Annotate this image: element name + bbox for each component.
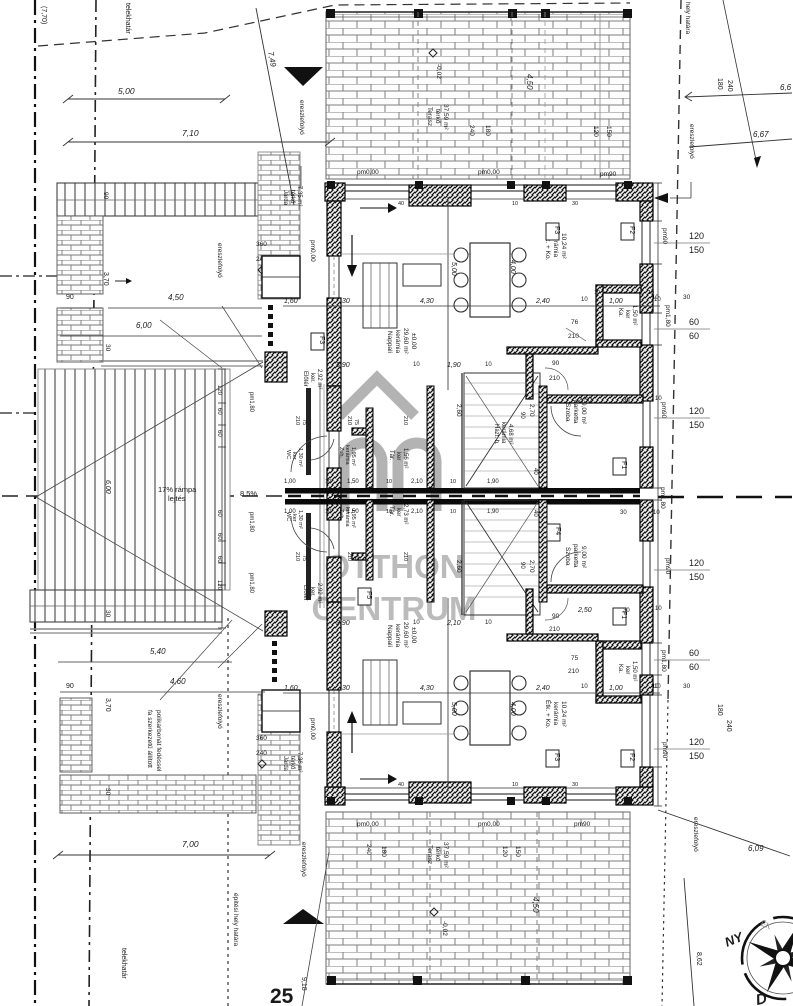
svg-text:Zuh.: Zuh. (338, 509, 344, 520)
svg-text:120: 120 (501, 846, 508, 857)
garage brick wall lower 2 (60, 776, 92, 813)
boundary dotted bottom left (227, 618, 229, 1006)
ramp striped paving (38, 369, 230, 590)
house bottom wall window lines (341, 793, 616, 795)
survey diamond (429, 49, 437, 57)
svg-text:2,10: 2,10 (411, 509, 423, 515)
svg-text:2,40: 2,40 (535, 298, 550, 305)
corner wall bottom-left (325, 787, 345, 805)
svg-text:150: 150 (689, 572, 704, 582)
right dim tick (654, 766, 662, 768)
svg-text:F3: F3 (553, 226, 560, 234)
right wall window l2 (642, 541, 644, 587)
svg-text:10: 10 (653, 510, 660, 516)
ka bay wall left b (596, 641, 603, 703)
svg-text:pm0,00: pm0,00 (357, 169, 379, 176)
terrace post b (521, 976, 530, 985)
svg-text:ereszlefolyó: ereszlefolyó (688, 124, 695, 159)
dim 6,67 (689, 139, 792, 147)
svg-text:telekhatár: telekhatár (120, 948, 127, 979)
right dim tick (654, 312, 662, 314)
svg-text:6,6: 6,6 (780, 83, 792, 92)
chairs lower (454, 676, 468, 690)
svg-text:210: 210 (346, 552, 352, 561)
right wall seg5 (640, 675, 653, 695)
svg-text:120: 120 (689, 231, 704, 241)
garage brick band bottom (60, 775, 256, 813)
svg-text:6,00: 6,00 (136, 321, 152, 330)
svg-text:kerámia: kerámia (344, 445, 350, 466)
svg-text:ker: ker (624, 666, 630, 674)
svg-text:40: 40 (532, 468, 538, 475)
svg-text:fa szerkezetű állított: fa szerkezetű állított (146, 710, 153, 768)
svg-text:(7,70): (7,70) (40, 6, 47, 24)
svg-text:120: 120 (689, 406, 704, 416)
svg-text:37,59 m²: 37,59 m² (442, 104, 449, 130)
kitchen island upper (403, 264, 441, 286)
dim tick (218, 446, 226, 448)
svg-text:WC: WC (285, 450, 291, 459)
leader lines left bottom (160, 620, 232, 700)
svg-text:Tár.: Tár. (388, 450, 394, 461)
svg-text:360: 360 (256, 735, 267, 742)
svg-text:75: 75 (353, 555, 359, 561)
wall post top (415, 181, 423, 189)
svg-text:90: 90 (552, 360, 560, 367)
terrace divider dashed b (429, 812, 431, 984)
dim chain line left of walkway (221, 369, 223, 628)
wall post top (542, 181, 550, 189)
right wall seg1 (640, 201, 653, 221)
window spec diamond (258, 266, 266, 274)
svg-text:1,90: 1,90 (487, 509, 499, 515)
svg-text:5,00: 5,00 (450, 262, 457, 276)
box F2 (621, 750, 634, 767)
svg-text:ker.: ker. (309, 373, 315, 383)
svg-text:4,50: 4,50 (525, 74, 534, 90)
svg-text:120: 120 (592, 126, 599, 137)
kitchen counter lower (363, 660, 397, 725)
svg-text:10: 10 (450, 509, 456, 515)
svg-text:pm1,80: pm1,80 (248, 512, 254, 533)
garage brick wall lower (60, 698, 92, 772)
svg-text:1,90: 1,90 (487, 479, 499, 485)
left wall upper (327, 201, 341, 256)
svg-text:4,50: 4,50 (168, 293, 184, 302)
etk wall upper (507, 347, 598, 354)
svg-text:30: 30 (104, 344, 111, 352)
dim tick (218, 368, 226, 370)
svg-text:10: 10 (581, 297, 588, 303)
svg-text:60: 60 (689, 331, 699, 341)
svg-text:10,24 m²: 10,24 m² (560, 233, 567, 259)
garage brick wall upper 2 (57, 308, 103, 362)
svg-text:Járda: Járda (282, 756, 288, 772)
svg-text:75: 75 (353, 419, 359, 425)
svg-text:10: 10 (386, 479, 392, 485)
trellis band top (57, 183, 263, 216)
stair diagonal upper (466, 376, 538, 486)
right wall seg3 (640, 345, 653, 401)
svg-text:30: 30 (104, 610, 111, 618)
wc door arc upper (311, 439, 334, 460)
svg-text:210: 210 (294, 416, 300, 425)
cabinet line upper (447, 197, 449, 390)
svg-text:37,59 m²: 37,59 m² (442, 842, 449, 868)
right dim tick (654, 674, 662, 676)
right dim tick (654, 499, 662, 501)
svg-text:F4: F4 (554, 527, 561, 535)
svg-text:60: 60 (689, 648, 699, 658)
svg-text:ker: ker (291, 452, 297, 460)
svg-text:1,60: 1,60 (284, 298, 298, 305)
dim tick (218, 584, 226, 586)
svg-text:Szoba: Szoba (564, 547, 571, 566)
stair enclosure lower (464, 500, 540, 615)
left window rect (262, 256, 300, 298)
right dim tick (654, 344, 662, 346)
svg-text:10: 10 (512, 201, 518, 207)
svg-text:30: 30 (683, 683, 691, 690)
svg-text:építési hely határa: építési hely határa (232, 893, 239, 947)
svg-text:pm0,00: pm0,00 (357, 821, 379, 828)
szoba wall upper (547, 395, 643, 403)
cabinet line lower (447, 598, 449, 791)
svg-text:180: 180 (716, 78, 723, 90)
compass rose (723, 917, 793, 1006)
svg-text:75: 75 (301, 419, 307, 425)
svg-text:kerámia: kerámia (394, 624, 401, 648)
chairs upper (454, 248, 468, 262)
zuh wall upper h (352, 428, 373, 435)
svg-text:4,50: 4,50 (531, 897, 540, 913)
wall pier bottom 2 (524, 787, 566, 803)
svg-text:1,50 m²: 1,50 m² (631, 661, 637, 681)
corner wall top-right (616, 183, 653, 201)
tar wall lower (427, 500, 434, 602)
svg-text:75: 75 (571, 655, 579, 662)
left wall at spine (327, 468, 341, 520)
svg-text:7,00: 7,00 (182, 839, 199, 849)
terrace post (541, 9, 550, 18)
svg-text:4,68 m²: 4,68 m² (507, 424, 513, 444)
ka bay wall top b (596, 641, 641, 649)
eresz leader 4 (690, 182, 692, 198)
box F2 (621, 223, 634, 240)
svg-text:60: 60 (689, 317, 699, 327)
svg-text:210: 210 (346, 416, 352, 425)
entry railing dots top (268, 305, 273, 310)
left wall entry up (327, 386, 341, 431)
svg-text:10: 10 (450, 479, 456, 485)
svg-text:90: 90 (519, 562, 525, 569)
wall post bottom (624, 797, 632, 805)
svg-text:Terasz: Terasz (426, 107, 433, 126)
svg-text:3,70: 3,70 (104, 698, 111, 712)
svg-text:10: 10 (325, 479, 331, 485)
svg-text:6,00: 6,00 (104, 480, 111, 494)
house top wall window lines (341, 184, 616, 186)
leader line bottom (302, 852, 329, 1006)
svg-text:10: 10 (512, 782, 518, 788)
svg-text:25: 25 (270, 985, 294, 1006)
svg-text:60: 60 (216, 430, 222, 437)
left wall entry low (327, 557, 341, 602)
svg-text:10: 10 (413, 362, 420, 368)
right dim tick (654, 487, 662, 489)
terrace bottom edge (326, 983, 630, 985)
svg-text:7,35 m²: 7,35 m² (296, 186, 302, 206)
svg-text:29,60 m²: 29,60 m² (402, 622, 409, 648)
left window rect b (262, 690, 300, 732)
svg-text:10: 10 (485, 362, 492, 368)
property boundary line left 2 (89, 0, 96, 1006)
svg-text:76: 76 (571, 319, 579, 326)
svg-text:2,60: 2,60 (455, 560, 462, 573)
axis dash-dot mid left (0, 412, 136, 414)
dim row line lower (283, 692, 660, 694)
wall post top (507, 181, 515, 189)
svg-text:5,00: 5,00 (450, 702, 457, 716)
terrace post (508, 9, 517, 18)
svg-text:240: 240 (468, 125, 475, 136)
svg-text:40: 40 (532, 510, 538, 517)
svg-text:10: 10 (594, 290, 600, 296)
etk wall lower (507, 634, 598, 641)
svg-text:hely határa: hely határa (684, 2, 691, 35)
svg-text:210: 210 (568, 333, 579, 340)
svg-text:Járda: Járda (282, 190, 288, 206)
svg-text:pm0,00: pm0,00 (478, 821, 500, 828)
svg-text:10: 10 (386, 509, 392, 515)
svg-text:9,00 m²: 9,00 m² (580, 402, 587, 425)
svg-text:5,40: 5,40 (150, 647, 166, 656)
stair wall left upper (461, 373, 463, 488)
svg-text:±0,00: ±0,00 (410, 627, 417, 644)
zuh wall upper v (366, 408, 373, 488)
svg-text:Zuh.: Zuh. (338, 447, 344, 458)
entry wall block top (265, 352, 287, 382)
svg-text:2,92 m²: 2,92 m² (316, 583, 322, 603)
party wall dashes (288, 495, 640, 497)
wc wall lower (306, 513, 311, 600)
terrace divider dashed (417, 12, 419, 179)
svg-text:4,60: 4,60 (170, 677, 186, 686)
svg-text:40: 40 (398, 782, 404, 788)
svg-text:Előtér: Előtér (302, 585, 308, 601)
svg-text:210: 210 (568, 668, 579, 675)
entry railing dots bottom (272, 641, 277, 646)
svg-text:2,73 m²: 2,73 m² (402, 504, 408, 524)
ceiling line upper (341, 253, 520, 255)
svg-text:2,70: 2,70 (528, 404, 535, 417)
svg-text:2,92 m²: 2,92 m² (316, 369, 322, 389)
svg-text:pm1,80: pm1,80 (248, 392, 254, 413)
svg-text:-0,02: -0,02 (435, 64, 442, 79)
entry door arc lower (291, 516, 327, 552)
svg-text:10: 10 (485, 620, 492, 626)
etk wall v upper (526, 354, 533, 399)
svg-text:4,30: 4,30 (420, 298, 434, 305)
svg-text:Étk. + Ko.: Étk. + Ko. (544, 700, 553, 729)
svg-text:30: 30 (342, 298, 350, 305)
terrace post (414, 9, 423, 18)
svg-text:Házt. h.: Házt. h. (493, 424, 499, 445)
left wall lower (327, 732, 341, 787)
svg-text:3,90: 3,90 (336, 620, 350, 627)
porch face lines (319, 384, 321, 608)
kitchen island lower (403, 702, 441, 724)
terrace post (326, 9, 335, 18)
svg-text:térkő: térkő (289, 756, 295, 770)
szoba door arc upper (551, 406, 581, 436)
svg-text:29,60 m²: 29,60 m² (402, 328, 409, 354)
svg-text:240: 240 (256, 750, 267, 757)
svg-text:8,62: 8,62 (695, 952, 702, 966)
svg-text:150: 150 (689, 751, 704, 761)
svg-text:±0,00: ±0,00 (410, 333, 417, 350)
svg-text:pm90: pm90 (661, 742, 668, 759)
north marker top (284, 67, 323, 86)
svg-text:1,30 m²: 1,30 m² (297, 448, 303, 467)
dim tick (218, 540, 226, 542)
svg-text:360: 360 (256, 241, 267, 248)
right dim tick (654, 182, 662, 184)
terrace top paving (326, 12, 630, 179)
svg-text:1,00: 1,00 (284, 479, 296, 485)
svg-text:3,90: 3,90 (336, 362, 350, 369)
svg-text:150: 150 (689, 420, 704, 430)
right dim tick (654, 263, 662, 265)
svg-text:pm90: pm90 (600, 171, 617, 178)
svg-text:1,00: 1,00 (609, 685, 623, 692)
grey eaves line lower (30, 628, 222, 630)
grey eaves line upper (101, 360, 263, 362)
svg-text:pm0,00: pm0,00 (478, 169, 500, 176)
corner wall bottom-right (616, 787, 653, 805)
svg-text:10: 10 (652, 684, 659, 690)
svg-text:Ka.: Ka. (617, 308, 623, 317)
zuh wall lower v (366, 500, 373, 580)
left wall window (328, 256, 330, 298)
dining table lower (470, 671, 510, 745)
right dim tick (654, 642, 662, 644)
zuh wall lower h (352, 553, 373, 560)
diag line top right (723, 0, 757, 165)
garage brick wall upper (57, 216, 103, 294)
ramp slope line lower (36, 497, 263, 631)
svg-text:210: 210 (294, 552, 300, 561)
box F1 (613, 608, 626, 625)
svg-text:2,10: 2,10 (411, 479, 423, 485)
svg-text:ker.: ker. (309, 587, 315, 597)
svg-text:17% rámpa: 17% rámpa (158, 485, 197, 494)
svg-text:F5: F5 (365, 591, 372, 599)
dim tick (218, 402, 226, 404)
svg-text:2,60: 2,60 (455, 404, 462, 417)
hall wall upper (539, 386, 547, 488)
jarda paving bottom (258, 694, 300, 845)
terrace post b (623, 976, 632, 985)
svg-text:10: 10 (325, 509, 331, 515)
dim 6,6 top (685, 93, 792, 97)
svg-text:6,67: 6,67 (753, 130, 769, 139)
svg-text:210: 210 (402, 552, 408, 561)
svg-text:60: 60 (216, 510, 222, 517)
svg-text:2,50: 2,50 (577, 607, 592, 614)
svg-text:1,50: 1,50 (347, 509, 359, 515)
svg-text:polikarbonát fedéssel: polikarbonát fedéssel (155, 710, 162, 772)
svg-text:120: 120 (689, 737, 704, 747)
eaves arrow left (654, 193, 668, 203)
svg-text:2,70: 2,70 (528, 560, 535, 573)
stair wall left lower (461, 500, 463, 615)
svg-text:2,10: 2,10 (446, 620, 461, 627)
svg-text:Terasz: Terasz (426, 845, 433, 864)
svg-text:240: 240 (725, 720, 732, 732)
dining table upper (470, 243, 510, 317)
svg-text:pm90: pm90 (574, 821, 591, 828)
corner wall top-left (325, 183, 345, 201)
entry wall block bottom (265, 611, 287, 636)
svg-text:10: 10 (655, 606, 662, 612)
right wall window3 (641, 643, 643, 675)
svg-text:5,00: 5,00 (118, 86, 135, 96)
svg-text:pm0,00: pm0,00 (309, 718, 316, 740)
right wall window1 (641, 221, 643, 264)
svg-text:F3: F3 (318, 336, 325, 344)
right wall seg3b (640, 447, 653, 488)
svg-text:ereszlefolyó: ereszlefolyó (216, 694, 223, 729)
box F3 (546, 750, 559, 767)
svg-text:pm1,80: pm1,80 (248, 573, 254, 594)
svg-text:ereszlefolyó: ereszlefolyó (300, 842, 307, 877)
svg-text:180: 180 (380, 846, 387, 857)
dim 7,49 diagonal (256, 8, 294, 205)
svg-text:150: 150 (514, 846, 521, 857)
box F4 (547, 524, 560, 541)
svg-text:120: 120 (216, 385, 222, 396)
svg-text:90: 90 (519, 412, 525, 419)
arrow right upper (360, 207, 390, 209)
svg-text:3,70: 3,70 (102, 272, 109, 286)
svg-text:kerámia: kerámia (394, 330, 401, 354)
svg-text:1,60: 1,60 (284, 685, 298, 692)
terrace bottom paving (326, 812, 630, 984)
centre axis dashed left (2, 495, 282, 497)
svg-text:210: 210 (549, 375, 560, 382)
svg-text:ereszlefolyó: ereszlefolyó (298, 100, 305, 135)
terrace post (623, 9, 632, 18)
svg-text:7,36 m²: 7,36 m² (296, 752, 302, 772)
svg-text:60: 60 (689, 662, 699, 672)
box F3 (546, 223, 559, 240)
dim tick (218, 562, 226, 564)
svg-text:75: 75 (301, 555, 307, 561)
svg-text:Nappali: Nappali (386, 625, 393, 647)
dim tick (218, 424, 226, 426)
svg-text:4,00: 4,00 (509, 260, 516, 274)
ramp slope line upper (36, 362, 263, 497)
survey diamond b (430, 908, 438, 916)
etk wall v lower (526, 589, 533, 634)
wall post bottom (542, 797, 550, 805)
stair treads upper (464, 382, 540, 384)
svg-text:30: 30 (572, 201, 578, 207)
svg-text:8,5%: 8,5% (240, 489, 257, 498)
svg-text:OTTHON: OTTHON (324, 548, 463, 585)
box F1 (613, 458, 626, 475)
